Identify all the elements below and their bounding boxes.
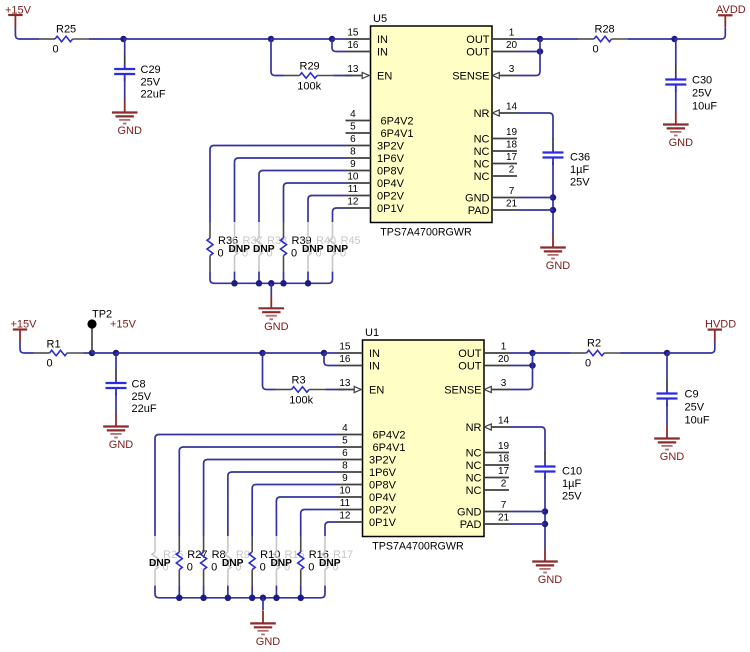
svg-text:GND: GND (538, 574, 563, 586)
svg-text:6P4V2: 6P4V2 (373, 430, 406, 442)
svg-text:R28: R28 (595, 23, 615, 35)
power +15V (11, 319, 38, 342)
junction (120, 36, 127, 43)
svg-text:8: 8 (342, 461, 348, 472)
svg-text:15: 15 (347, 28, 359, 39)
junction (268, 36, 275, 43)
wire (227, 586, 229, 598)
wire (263, 352, 325, 354)
svg-text:R29: R29 (300, 60, 320, 72)
svg-text:7: 7 (501, 500, 507, 511)
wire (509, 353, 533, 390)
wire (271, 38, 332, 40)
svg-text:18: 18 (498, 454, 510, 465)
wire (179, 447, 337, 536)
pin 13 EN (346, 64, 393, 83)
svg-text:DNP: DNP (302, 244, 324, 255)
svg-text:3P2V: 3P2V (377, 141, 405, 153)
wire (675, 39, 677, 65)
svg-text:0: 0 (585, 358, 591, 370)
wire (552, 162, 554, 235)
svg-text:1: 1 (509, 28, 515, 39)
svg-text:PAD: PAD (468, 205, 490, 217)
pin 6 3P2V (346, 134, 405, 153)
junction (176, 595, 183, 602)
resistor R45 DNP (327, 222, 361, 272)
svg-text:0: 0 (308, 562, 314, 574)
svg-text:25V: 25V (132, 391, 152, 403)
junction (200, 595, 207, 602)
power AVDD (716, 4, 746, 27)
wire (675, 28, 726, 40)
wire (15, 27, 39, 39)
svg-text:DNP: DNP (270, 558, 292, 569)
svg-text:+15V: +15V (110, 319, 137, 331)
pin 15 IN (338, 342, 381, 361)
svg-text:0: 0 (187, 562, 193, 574)
pin 14 NR (466, 416, 510, 435)
pin 14 NR (474, 102, 518, 121)
wire (517, 51, 540, 53)
svg-text:20: 20 (506, 40, 518, 51)
svg-text:GND: GND (256, 636, 281, 648)
wire (666, 403, 668, 426)
wire (540, 38, 578, 40)
svg-text:OUT: OUT (466, 47, 490, 59)
ground (259, 295, 289, 333)
svg-text:1P6V: 1P6V (369, 467, 397, 479)
svg-text:18: 18 (506, 140, 518, 151)
svg-text:0P4V: 0P4V (369, 492, 397, 504)
wire (509, 523, 545, 525)
wire (124, 78, 126, 99)
svg-text:100k: 100k (289, 394, 313, 406)
svg-text:GND: GND (669, 137, 694, 149)
svg-text:NR: NR (466, 422, 482, 434)
wire (210, 146, 346, 223)
svg-text:IN: IN (369, 348, 380, 360)
svg-text:25V: 25V (685, 402, 705, 414)
svg-text:TPS7A4700RGWR: TPS7A4700RGWR (380, 227, 472, 239)
ground (112, 100, 142, 138)
svg-text:3: 3 (509, 64, 515, 75)
wire (204, 460, 338, 537)
svg-text:6: 6 (350, 134, 356, 145)
capacitor C10 (535, 452, 583, 503)
pin 8 1P6V (346, 147, 405, 166)
resistor R26 DNP (149, 536, 183, 586)
ground (540, 235, 570, 273)
junction (550, 207, 557, 214)
pin 3 SENSE (444, 378, 509, 397)
svg-text:25V: 25V (562, 491, 582, 503)
junction (329, 36, 336, 43)
wire (333, 208, 346, 222)
resistor R16 (298, 536, 329, 586)
pin 21 PAD (468, 199, 518, 218)
resistor R17 DNP (319, 536, 353, 586)
svg-text:1µF: 1µF (570, 164, 589, 176)
svg-text:3P2V: 3P2V (369, 455, 397, 467)
wire (228, 472, 338, 536)
svg-text:PAD: PAD (460, 519, 482, 531)
junction (225, 595, 232, 602)
pin 6 3P2V (338, 448, 397, 467)
svg-text:6: 6 (342, 448, 348, 459)
junction (537, 48, 544, 55)
ground (103, 414, 133, 452)
junction (321, 350, 328, 357)
wire (544, 476, 546, 549)
svg-text:GND: GND (109, 439, 134, 451)
pin 10 0P4V (346, 172, 405, 191)
pin 18 NC (474, 140, 518, 159)
resistor R27 (176, 536, 207, 586)
wire (324, 353, 338, 366)
pin 13 EN (338, 378, 385, 397)
wire (517, 209, 553, 211)
svg-text:5: 5 (350, 122, 356, 133)
svg-text:11: 11 (340, 498, 351, 509)
resistor R2 (571, 337, 621, 369)
svg-text:DNP: DNP (327, 244, 349, 255)
pin 2 NC (474, 165, 517, 184)
svg-text:8: 8 (350, 147, 356, 158)
pin 1 OUT (466, 28, 517, 47)
wire (259, 171, 346, 223)
svg-text:0: 0 (260, 562, 266, 574)
resistor R37 DNP (229, 222, 263, 272)
wire (301, 510, 338, 537)
svg-text:0P1V: 0P1V (369, 517, 397, 529)
wire (284, 183, 346, 222)
svg-text:25V: 25V (692, 88, 712, 100)
pin 20 OUT (458, 354, 509, 373)
junction (542, 521, 549, 528)
wire (325, 389, 344, 391)
svg-text:3: 3 (501, 378, 507, 389)
svg-text:C8: C8 (132, 379, 146, 391)
wire (675, 89, 677, 112)
wire (155, 435, 338, 537)
pin 5 6P4V1 (338, 436, 406, 455)
wire (124, 38, 272, 40)
wire (509, 427, 545, 453)
svg-text:OUT: OUT (458, 361, 482, 373)
wire (234, 272, 236, 284)
pin 18 NC (466, 454, 510, 473)
svg-text:C36: C36 (570, 152, 590, 164)
resistor R25 (39, 23, 89, 55)
svg-text:C9: C9 (685, 389, 699, 401)
svg-text:2: 2 (501, 479, 507, 490)
pin 2 NC (466, 479, 509, 498)
svg-text:25V: 25V (141, 76, 161, 88)
capacitor C36 (543, 138, 591, 189)
svg-text:GND: GND (264, 321, 289, 333)
svg-text:19: 19 (506, 127, 518, 138)
pin 19 NC (466, 441, 510, 460)
wire (124, 39, 126, 55)
svg-text:12: 12 (339, 511, 351, 522)
junction (249, 595, 256, 602)
svg-text:22uF: 22uF (141, 89, 166, 101)
svg-text:GND: GND (546, 260, 571, 272)
junction (671, 36, 678, 43)
svg-text:EN: EN (377, 71, 392, 83)
wire (116, 352, 263, 354)
pin 11 0P2V (338, 498, 397, 517)
wire (270, 283, 272, 295)
pin 20 OUT (466, 40, 517, 59)
svg-text:C29: C29 (141, 64, 161, 76)
junction (542, 508, 549, 515)
wire (628, 38, 675, 40)
wire (517, 39, 540, 76)
svg-text:R1: R1 (47, 339, 61, 351)
junction (231, 280, 238, 287)
svg-text:13: 13 (339, 378, 351, 389)
pin 5 6P4V1 (346, 122, 414, 141)
wire (271, 39, 284, 76)
svg-text:1µF: 1µF (562, 478, 581, 490)
svg-text:NC: NC (474, 159, 490, 171)
wire bus to ground (155, 586, 325, 598)
pin 9 0P8V (338, 473, 397, 492)
wire (283, 272, 285, 284)
wire (252, 485, 337, 537)
resistor R36 (207, 222, 238, 272)
capacitor C29 (114, 55, 166, 101)
svg-text:11: 11 (348, 184, 359, 195)
wire bus to ground (210, 272, 333, 284)
ground (663, 112, 693, 150)
svg-text:NC: NC (466, 485, 482, 497)
pin 16 IN (338, 354, 381, 373)
svg-text:21: 21 (506, 199, 518, 210)
wire (20, 342, 34, 354)
svg-text:14: 14 (498, 416, 510, 427)
svg-text:6P4V1: 6P4V1 (373, 442, 406, 454)
svg-text:R25: R25 (56, 23, 76, 35)
pin 9 0P8V (346, 159, 405, 178)
svg-text:0P2V: 0P2V (369, 505, 397, 517)
svg-text:6P4V1: 6P4V1 (381, 128, 414, 140)
wire (235, 158, 346, 222)
svg-text:6P4V2: 6P4V2 (381, 116, 414, 128)
wire (620, 352, 667, 354)
pin 17 NC (466, 466, 510, 485)
svg-text:IN: IN (369, 361, 380, 373)
power HVDD (705, 318, 736, 341)
wire (251, 586, 253, 598)
junction (297, 595, 304, 602)
junction (550, 194, 557, 201)
svg-text:DNP: DNP (253, 244, 275, 255)
ground (654, 426, 684, 464)
svg-text:12: 12 (347, 197, 359, 208)
pin 16 IN (346, 40, 389, 59)
wire (667, 342, 715, 354)
resistor R39 (281, 222, 312, 272)
pin 12 0P1V (346, 197, 405, 216)
pin 17 NC (474, 152, 518, 171)
wire (517, 197, 553, 199)
svg-text:0: 0 (53, 44, 59, 56)
wire (300, 586, 302, 598)
svg-text:17: 17 (498, 466, 510, 477)
junction (305, 280, 312, 287)
pin 7 GND (457, 500, 509, 519)
svg-text:OUT: OUT (466, 34, 490, 46)
svg-text:IN: IN (377, 47, 388, 59)
wire (509, 365, 533, 367)
wire (258, 272, 260, 284)
svg-text:R2: R2 (587, 337, 601, 349)
wire (115, 353, 117, 369)
junction (259, 350, 266, 357)
resistor R28 (578, 23, 628, 55)
wire (517, 113, 553, 139)
svg-text:4: 4 (342, 423, 348, 434)
junction (537, 36, 544, 43)
wire (178, 586, 180, 598)
svg-text:OUT: OUT (458, 348, 482, 360)
svg-text:9: 9 (342, 473, 348, 484)
svg-text:DNP: DNP (222, 558, 244, 569)
pin 19 NC (474, 127, 518, 146)
pin 8 1P6V (338, 461, 397, 480)
wire (307, 272, 309, 284)
svg-text:0P2V: 0P2V (377, 191, 405, 203)
svg-text:0P1V: 0P1V (377, 203, 405, 215)
svg-text:10uF: 10uF (685, 415, 710, 427)
svg-text:NC: NC (466, 460, 482, 472)
wire (333, 75, 352, 77)
svg-text:TPS7A4700RGWR: TPS7A4700RGWR (372, 541, 464, 553)
wire (324, 352, 338, 354)
pin 10 0P4V (338, 486, 397, 505)
svg-text:0P4V: 0P4V (377, 178, 405, 190)
svg-text:GND: GND (465, 193, 490, 205)
svg-text:DNP: DNP (229, 244, 251, 255)
IC U1 TPS7A4700RGWR (363, 327, 485, 553)
wire (83, 352, 92, 354)
pin 3 SENSE (452, 64, 517, 83)
resistor R9 DNP (222, 536, 250, 586)
wire (115, 392, 117, 413)
svg-text:20: 20 (498, 354, 510, 365)
resistor R38 DNP (253, 222, 287, 272)
svg-text:25V: 25V (570, 177, 590, 189)
pin 1 OUT (458, 342, 509, 361)
svg-text:NC: NC (466, 473, 482, 485)
junction (664, 350, 671, 357)
svg-text:DNP: DNP (149, 558, 171, 569)
wire (325, 522, 338, 536)
junction (89, 350, 96, 357)
resistor R8 (201, 536, 226, 586)
svg-text:DNP: DNP (319, 558, 341, 569)
svg-text:IN: IN (377, 34, 388, 46)
svg-text:NC: NC (466, 448, 482, 460)
pin 7 GND (465, 186, 517, 205)
svg-text:1P6V: 1P6V (377, 153, 405, 165)
svg-text:1: 1 (501, 342, 507, 353)
capacitor C8 (106, 369, 157, 416)
pin 4 6P4V2 (346, 109, 414, 128)
svg-text:7: 7 (509, 186, 515, 197)
svg-text:17: 17 (506, 152, 518, 163)
resistor R1 (34, 339, 84, 370)
ground (532, 549, 562, 587)
wire (509, 511, 545, 513)
junction (280, 280, 287, 287)
wire (276, 497, 337, 536)
svg-text:EN: EN (369, 385, 384, 397)
svg-text:16: 16 (339, 354, 351, 365)
wire (517, 38, 540, 40)
svg-text:R3: R3 (292, 374, 306, 386)
svg-text:10: 10 (339, 486, 351, 497)
svg-text:2: 2 (509, 165, 515, 176)
junction (273, 595, 280, 602)
svg-text:21: 21 (498, 513, 510, 524)
svg-text:5: 5 (342, 436, 348, 447)
svg-text:SENSE: SENSE (444, 385, 481, 397)
svg-text:0: 0 (211, 562, 217, 574)
pin 21 PAD (460, 513, 510, 532)
svg-text:NR: NR (474, 108, 490, 120)
resistor R10 (249, 536, 280, 586)
junction (268, 280, 275, 287)
svg-text:NC: NC (474, 146, 490, 158)
svg-text:14: 14 (506, 102, 518, 113)
svg-text:U5: U5 (373, 13, 387, 25)
pin 11 0P2V (346, 184, 405, 203)
svg-text:U1: U1 (365, 327, 379, 339)
ground (250, 610, 280, 648)
IC U5 TPS7A4700RGWR (371, 13, 493, 239)
resistor R3 (276, 374, 326, 406)
junction (260, 595, 267, 602)
svg-text:13: 13 (347, 64, 359, 75)
resistor R29 (284, 60, 334, 92)
wire (262, 598, 264, 610)
capacitor C9 (657, 379, 710, 427)
junction (113, 350, 120, 357)
svg-text:9: 9 (350, 159, 356, 170)
svg-text:C30: C30 (692, 75, 712, 87)
svg-text:0: 0 (291, 248, 297, 260)
wire (666, 353, 668, 379)
pin 12 0P1V (338, 511, 397, 530)
svg-text:19: 19 (498, 441, 510, 452)
svg-text:10: 10 (347, 172, 359, 183)
wire (509, 352, 533, 354)
svg-text:0: 0 (593, 44, 599, 56)
wire (275, 586, 277, 598)
resistor R15 DNP (270, 536, 304, 586)
svg-text:16: 16 (347, 40, 359, 51)
svg-text:GND: GND (457, 507, 482, 519)
svg-text:10uF: 10uF (692, 101, 717, 113)
svg-text:0: 0 (47, 358, 53, 370)
wire (263, 353, 276, 390)
junction (529, 350, 536, 357)
svg-text:0P8V: 0P8V (377, 166, 405, 178)
svg-text:GND: GND (117, 125, 142, 137)
